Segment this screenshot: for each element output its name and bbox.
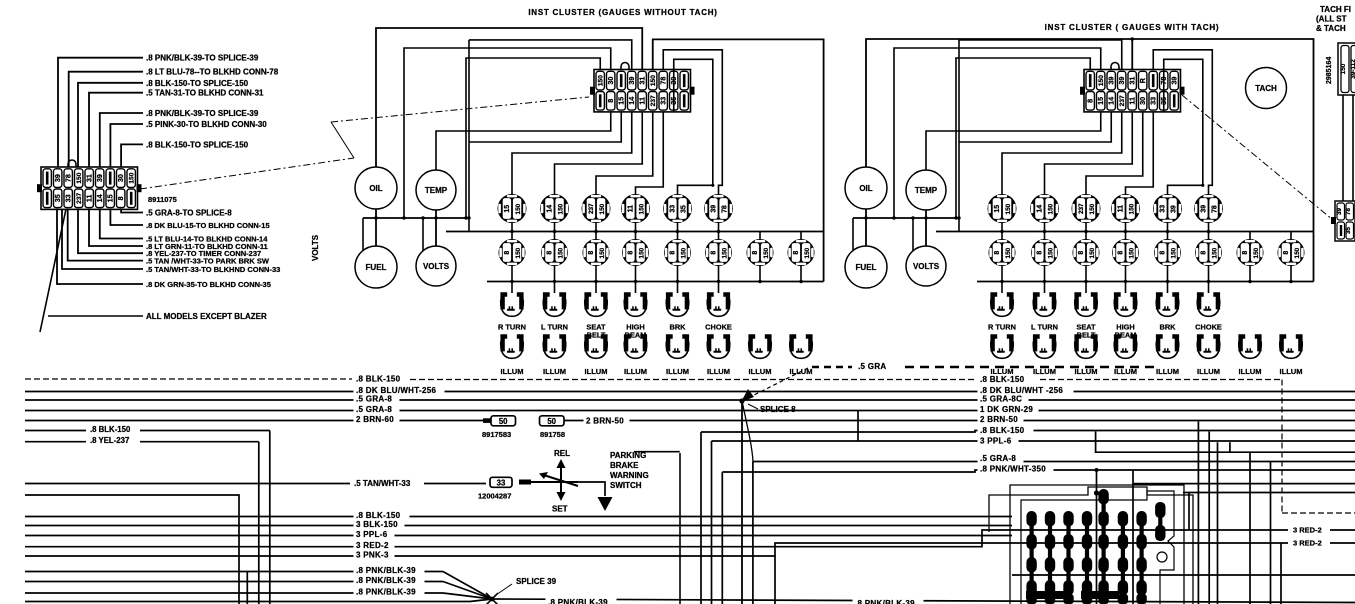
wire red-2b drop — [1280, 543, 1282, 604]
svg-text:.8 BLK-150-TO SPLICE-150: .8 BLK-150-TO SPLICE-150 — [146, 79, 249, 88]
connector C1 blkhd pin cell top3 78 — [64, 169, 72, 188]
svg-text:BRK: BRK — [669, 323, 686, 332]
svg-text:3 BLK-150: 3 BLK-150 — [356, 520, 398, 529]
wire pnk/blk diag 2 — [443, 582, 492, 600]
svg-text:15: 15 — [617, 97, 626, 105]
wire all-models lead — [48, 315, 143, 317]
wire drop x680 — [679, 453, 681, 604]
connector C1 blkhd pin cell top6 39 — [96, 169, 104, 188]
connector C1 blkhd pin cell top9 150 — [127, 169, 135, 188]
wire bulb row2 stub with tach — [1044, 232, 1046, 240]
svg-text:8: 8 — [1118, 251, 1125, 255]
svg-text:8: 8 — [670, 251, 677, 255]
label bus right — [978, 414, 1024, 425]
gauge TEMP — [906, 170, 946, 210]
wire bus at y420.5 — [25, 420, 1355, 422]
terminal blob — [483, 418, 491, 423]
wire fuel left drop without tach — [362, 218, 364, 250]
svg-text:.8 BLK-150: .8 BLK-150 — [356, 511, 401, 520]
svg-text:39: 39 — [95, 174, 104, 182]
wire y452 run — [1096, 432, 1355, 453]
bulb socket row1-3 with tach (237/150) — [1072, 194, 1101, 223]
svg-text:150: 150 — [1089, 203, 1096, 214]
svg-text:8: 8 — [1086, 99, 1095, 103]
svg-text:3 RED-2: 3 RED-2 — [1293, 526, 1322, 535]
label bus right — [978, 404, 1039, 415]
svg-text:39: 39 — [711, 205, 718, 213]
dash splice8 riser — [742, 368, 808, 401]
svg-text:L TURN: L TURN — [541, 323, 568, 332]
connector C2 cluster without-tach pin cell bot8 35 — [670, 92, 678, 111]
connector C2 cluster without-tach pin cell top2 30 — [607, 71, 615, 90]
lamp ILLUM-1 without tach — [500, 334, 523, 358]
wire C1 bottom 7 — [62, 209, 143, 270]
wire bulb row2 stub with tach — [1249, 232, 1251, 240]
connector C1 blkhd pin cell bot5 11 — [85, 189, 93, 208]
wire tan/wht left — [25, 483, 350, 485]
connector C3 cluster with-tach pin cell bot8 35 — [1160, 92, 1168, 111]
wire red-2 exit a — [1330, 529, 1355, 531]
wire C1 bottom 6 — [68, 209, 143, 261]
svg-text:150: 150 — [1170, 247, 1177, 258]
svg-text:ILLUM: ILLUM — [585, 367, 608, 376]
wire C1 top 7 — [121, 144, 143, 167]
wire step ppl — [1229, 442, 1231, 452]
connector C1 blkhd right nub — [137, 184, 142, 192]
park brake switch lever — [542, 475, 578, 487]
wire C1 top 5 — [100, 113, 143, 167]
svg-text:.8 PNK/BLK-39: .8 PNK/BLK-39 — [356, 576, 416, 585]
svg-text:237: 237 — [588, 203, 595, 214]
connector C2 cluster without-tach pin cell top6 150 — [649, 71, 657, 90]
svg-text:OIL: OIL — [369, 184, 382, 193]
svg-text:.8 BLK-150: .8 BLK-150 — [90, 425, 131, 434]
wire bulb drop without tach — [511, 223, 513, 232]
svg-text:150: 150 — [1128, 247, 1135, 258]
svg-text:.8 PNK/BLK-39: .8 PNK/BLK-39 — [548, 598, 608, 604]
switch down arrow — [598, 497, 613, 511]
label pnk/blk 2 — [354, 575, 425, 586]
svg-text:FUEL: FUEL — [856, 263, 877, 272]
svg-text:.5 PINK-30-TO BLKHD CONN-30: .5 PINK-30-TO BLKHD CONN-30 — [146, 120, 267, 129]
connector C1 blkhd pin cell top5 31 — [85, 169, 93, 188]
svg-text:8: 8 — [711, 251, 718, 255]
connector C3 cluster with-tach body — [1084, 70, 1181, 112]
connector C5 cell 39 — [1337, 203, 1345, 220]
wire bulb2 feed with tach — [1045, 112, 1133, 194]
wire right extra y483 — [1133, 483, 1355, 485]
connector C3 cluster with-tach pin cell top1 bar — [1086, 71, 1094, 90]
connector C3 cluster with-tach pin cell bot4 237 — [1118, 92, 1126, 111]
connector C2 cluster without-tach right nub — [690, 87, 695, 95]
svg-text:8: 8 — [793, 251, 800, 255]
bulb socket row2-5 without tach (8/150) — [664, 239, 691, 266]
wire bulb row2 stub with tach — [1125, 232, 1127, 240]
svg-text:.5 GRA: .5 GRA — [858, 362, 886, 371]
connector C2 cluster without-tach left nub — [590, 87, 595, 95]
wire to cell30 without tach — [404, 48, 611, 218]
svg-text:150: 150 — [515, 203, 522, 214]
svg-text:11: 11 — [85, 194, 94, 202]
wire to cell30 with tach — [894, 48, 1101, 218]
bulb socket row1-2 with tach (14/150) — [1030, 194, 1059, 223]
wire pcb cross y575 — [1012, 574, 1355, 576]
lamp L TURN without tach — [543, 292, 566, 316]
svg-text:FUEL: FUEL — [366, 263, 387, 272]
wire mid bus without tach — [446, 231, 824, 233]
wire bus y516.5 — [25, 516, 1012, 518]
svg-text:78: 78 — [721, 205, 728, 213]
wire bulb row2 stub with tach — [1167, 232, 1169, 240]
svg-text:.8 PNK/WHT-350: .8 PNK/WHT-350 — [980, 465, 1046, 474]
lamp R TURN with tach — [990, 292, 1013, 316]
wire blk-150 drop x269.8 — [269, 431, 271, 604]
svg-text:ILLUM: ILLUM — [1156, 367, 1179, 376]
svg-text:L TURN: L TURN — [1031, 323, 1058, 332]
svg-text:.8 BLK-150: .8 BLK-150 — [980, 426, 1025, 435]
label .5 GRA-8 right — [978, 453, 1024, 464]
wire lamp stub without tach — [554, 282, 556, 294]
svg-text:8: 8 — [1283, 251, 1290, 255]
svg-text:2 BRN-50: 2 BRN-50 — [586, 417, 624, 426]
connector C2 cluster without-tach pin cell top9 bar — [680, 71, 688, 90]
wire bus y535.5 — [25, 535, 1012, 537]
label 3 PNK-3 — [354, 550, 395, 561]
lamp CHOKE without tach — [707, 292, 730, 316]
bulb socket row2-3 without tach (8/150) — [583, 239, 610, 266]
wire C1 bottom 3 — [100, 209, 143, 239]
svg-text:CHOKE: CHOKE — [705, 323, 732, 332]
wire pnk/blk 2 — [25, 581, 443, 583]
connector C1 blkhd pin cell top8 30 — [117, 169, 125, 188]
connector C2 cluster without-tach pin cell bot4 14 — [628, 92, 636, 111]
svg-text:2 BRN-60: 2 BRN-60 — [356, 415, 394, 424]
connector C5 cell 35 — [1346, 222, 1354, 239]
connector C3 cluster with-tach pin cell top6 R — [1139, 71, 1147, 90]
gauge OIL — [845, 167, 887, 209]
connector C3 cluster with-tach pin cell top2 150 — [1097, 71, 1105, 90]
pcb connector outline inner — [1021, 491, 1174, 604]
svg-text:8: 8 — [588, 251, 595, 255]
wire drop x247 — [246, 572, 248, 604]
wire bus blk-150 dashed right2 — [1040, 379, 1282, 381]
svg-text:8: 8 — [1160, 251, 1167, 255]
svg-text:8911075: 8911075 — [148, 195, 177, 204]
label bus right — [978, 394, 1029, 405]
wire bus blk-150 dashed right — [410, 379, 975, 381]
wire bus yel-237 y441 — [140, 441, 259, 443]
connector C2 cluster without-tach pin cell top5 31 — [638, 71, 646, 90]
connector C4 cell 150 — [1341, 46, 1349, 93]
wire bus yel-237 y441 stub — [25, 441, 86, 443]
svg-text:TACH FI: TACH FI — [1320, 5, 1351, 14]
label bus2 — [354, 519, 405, 530]
connector C3 cluster with-tach pin cell bot1 8 — [1086, 92, 1094, 111]
wire drop x752 — [752, 462, 754, 604]
wire pnk/blk 3 — [25, 592, 443, 594]
svg-text:.8 PNK/BLK-39-TO SPLICE-39: .8 PNK/BLK-39-TO SPLICE-39 — [146, 54, 259, 63]
connector C1 blkhd pin cell top4 150 — [75, 169, 83, 188]
pcb pad column — [1045, 511, 1055, 604]
wire bulb drop without tach — [635, 223, 637, 232]
svg-text:.8 PNK/BLK-39: .8 PNK/BLK-39 — [356, 566, 416, 575]
connector C5 cell 78 — [1346, 203, 1354, 220]
svg-text:.8 PNK/BLK-39: .8 PNK/BLK-39 — [855, 599, 915, 604]
connector C3 cluster with-tach pin cell bot5 11 — [1128, 92, 1136, 111]
wire bulb row2 stub without tach — [635, 232, 637, 240]
wire right edge without-tach — [653, 39, 824, 281]
connector C2 cluster without-tach pin cell bot6 237 — [649, 92, 657, 111]
wire bulb drop without tach — [554, 223, 556, 232]
bulb socket row1-1 with tach (15/150) — [988, 194, 1017, 223]
wire bulb drop without tach — [677, 223, 679, 232]
wire bulb row2 stub without tach — [800, 232, 802, 240]
wire fuel left drop with tach — [852, 218, 854, 250]
wire drop x1217 — [1217, 442, 1219, 604]
svg-text:SWITCH: SWITCH — [610, 481, 642, 490]
svg-text:237: 237 — [1119, 95, 1126, 106]
wire drop x1133 — [1132, 470, 1134, 604]
wire drop x701 — [700, 432, 702, 604]
connector C3 cluster with-tach pin cell top7 bar — [1149, 71, 1157, 90]
wire bulb3 feed with tach — [1086, 112, 1143, 194]
svg-text:35: 35 — [53, 194, 62, 202]
wire bulb row2 stub with tach — [1208, 232, 1210, 240]
wire bus blk-150 y430 — [140, 430, 270, 432]
connector C5 nub — [1331, 217, 1336, 224]
connector C2 cluster without-tach pin cell top1 150 — [596, 71, 604, 90]
svg-text:39: 39 — [1201, 205, 1208, 213]
connector C2 cluster without-tach keying bump — [621, 63, 629, 70]
wire drop x1094 — [1096, 470, 1098, 604]
lamp ILLUM-4 with tach — [1114, 334, 1137, 358]
wire 3 pnk-3 — [25, 543, 1288, 556]
lamp SEAT|BELT without tach — [584, 292, 607, 316]
wire yel-237 drop x258.8 — [258, 442, 260, 604]
svg-text:.5 TAN-31-TO BLKHD CONN-31: .5 TAN-31-TO BLKHD CONN-31 — [146, 89, 264, 98]
label 2 BRN-50 mid — [584, 416, 630, 427]
svg-text:150: 150 — [680, 247, 687, 258]
wire temp-volts link with tach — [925, 210, 927, 246]
gauge VOLTS — [416, 246, 456, 286]
gauge VOLTS — [906, 246, 946, 286]
svg-text:ILLUM: ILLUM — [1280, 367, 1303, 376]
svg-text:12004287: 12004287 — [478, 492, 511, 501]
svg-text:8: 8 — [1242, 251, 1249, 255]
svg-text:150: 150 — [1128, 203, 1135, 214]
svg-text:.8 BLK-150: .8 BLK-150 — [980, 375, 1025, 384]
wire bulb row2 stub without tach — [718, 232, 720, 240]
gauge FUEL — [355, 246, 397, 288]
wire volts left drop without tach — [422, 218, 424, 251]
svg-text:WARNING: WARNING — [610, 471, 649, 480]
connector C1 blkhd pin cell bot4 237 — [75, 189, 83, 208]
svg-text:150: 150 — [638, 203, 645, 214]
label bus2 — [354, 510, 410, 521]
wire pnk/blk out — [492, 599, 1355, 603]
bulb socket row2-7 without tach (8/150) — [747, 239, 774, 266]
svg-text:BELT: BELT — [587, 331, 606, 340]
svg-text:8: 8 — [752, 251, 759, 255]
wire C1 bottom 4 — [89, 209, 143, 247]
wire to cell150a with tach — [956, 58, 1090, 218]
park brake switch cross — [531, 481, 578, 483]
svg-text:11: 11 — [628, 205, 635, 213]
wire C1 bottom 5 — [78, 209, 143, 254]
lamp L TURN with tach — [1033, 292, 1056, 316]
pcb pad column — [1063, 511, 1073, 604]
lamp BRK with tach — [1156, 292, 1179, 316]
connector C3 cluster with-tach pin cell top9 39 — [1170, 71, 1178, 90]
connector C1 blkhd keying bump — [68, 160, 76, 167]
wire bulb drop with tach — [1044, 223, 1046, 232]
svg-text:237: 237 — [76, 192, 83, 203]
svg-text:150: 150 — [1340, 63, 1347, 74]
wire C4 to C5 right — [1352, 95, 1354, 201]
pcb pad column — [1082, 511, 1092, 604]
lamp SEAT|BELT with tach — [1074, 292, 1097, 316]
wire bulb drop without tach — [718, 223, 720, 232]
connector C3 cluster with-tach pin cell top3 39 — [1107, 71, 1115, 90]
svg-text:30: 30 — [606, 77, 615, 85]
svg-text:150: 150 — [1089, 247, 1096, 258]
wire red-2 exit b — [1330, 542, 1355, 544]
label bus2 — [354, 529, 395, 540]
wire fuel riser with tach — [958, 40, 960, 232]
wire C1 top 4 — [89, 93, 143, 167]
connector C5 body — [1335, 201, 1355, 241]
pcb pad column 8 — [1155, 502, 1165, 541]
junction x1102 — [1094, 490, 1099, 495]
gauge OIL — [355, 167, 397, 209]
lamp ILLUM-7 without tach — [748, 334, 771, 358]
svg-text:8: 8 — [1037, 251, 1044, 255]
wire gauge bus with tach — [853, 217, 960, 219]
lamp ILLUM-5 without tach — [666, 334, 689, 358]
wire C1 top 2 — [69, 72, 143, 167]
wire lamp stub with tach — [1208, 282, 1210, 294]
wire pnk/blk diag 3 — [443, 593, 492, 599]
bulb socket row1-2 without tach (14/150) — [540, 194, 569, 223]
wire pnk/wht y472 — [722, 470, 1355, 472]
wire fuel riser without tach — [468, 40, 470, 232]
svg-text:.8 DK BLU-15-TO BLKHD CONN-15: .8 DK BLU-15-TO BLKHD CONN-15 — [146, 221, 270, 230]
svg-text:.8 YEL-237: .8 YEL-237 — [90, 436, 129, 445]
splice8 pointer — [748, 404, 758, 409]
wire bus blk-150 dashed drop — [1281, 380, 1283, 514]
svg-text:14: 14 — [1107, 97, 1116, 105]
svg-text:BEAM: BEAM — [1115, 331, 1137, 340]
wire lamp stub without tach — [635, 282, 637, 294]
gauge FUEL — [845, 246, 887, 288]
svg-text:3 RED-2: 3 RED-2 — [356, 541, 389, 550]
wire to cell150a without tach — [466, 58, 600, 218]
wire bulb row2 stub with tach — [1001, 232, 1003, 240]
svg-text:150: 150 — [1005, 203, 1012, 214]
wire oil-fuel link with tach — [865, 209, 867, 246]
svg-text:15: 15 — [994, 205, 1001, 213]
svg-text:.8 BLK-150-TO SPLICE-150: .8 BLK-150-TO SPLICE-150 — [146, 140, 249, 149]
lamp ILLUM-2 without tach — [543, 334, 566, 358]
bulb socket row2-8 without tach (8/150) — [788, 239, 815, 266]
label 3 RED-2 — [354, 540, 395, 551]
svg-text:R TURN: R TURN — [988, 323, 1016, 332]
svg-text:1 DK GRN-29: 1 DK GRN-29 — [980, 405, 1033, 414]
connector C1 blkhd pin cell bot7 15 — [106, 189, 114, 208]
connector C1 blkhd pin cell top1 bar — [43, 169, 51, 188]
connector C1 blkhd left nub — [37, 184, 42, 192]
label bus left — [354, 414, 400, 425]
wire bus blk-150 y430 stub — [25, 430, 86, 432]
label bus left — [354, 404, 400, 415]
bulb socket row2-8 with tach (8/150) — [1278, 239, 1305, 266]
lamp HIGH|BEAM without tach — [624, 292, 647, 316]
connector C3 cluster with-tach left nub — [1080, 87, 1085, 95]
svg-text:2 BRN-50: 2 BRN-50 — [980, 415, 1018, 424]
wire bus right blk-150 y430 — [701, 431, 1355, 433]
bulb socket row1-4 without tach (11/150) — [621, 194, 650, 223]
bulb socket row1-3 without tach (237/150) — [582, 194, 611, 223]
svg-text:39: 39 — [1170, 205, 1177, 213]
lamp R TURN without tach — [500, 292, 523, 316]
svg-text:3 PNK-3: 3 PNK-3 — [356, 551, 389, 560]
wire bulb row2 stub with tach — [1290, 232, 1292, 240]
svg-text:ILLUM: ILLUM — [666, 367, 689, 376]
wire bulb drop with tach — [1001, 223, 1003, 232]
bulb socket row1-6 without tach (39/78) — [704, 194, 733, 223]
label bus blk-150 left — [354, 374, 410, 385]
svg-text:8: 8 — [1201, 251, 1208, 255]
svg-text:8: 8 — [116, 196, 125, 200]
bulb socket row2-4 with tach (8/150) — [1112, 239, 1139, 266]
wire drop x1270 — [1270, 462, 1272, 604]
wire bulb4 feed without tach — [636, 112, 664, 194]
wire bulb4 feed with tach — [1126, 112, 1154, 194]
connector C1 blkhd pin cell bot3 33 — [64, 189, 72, 208]
svg-text:15: 15 — [1096, 97, 1105, 105]
wire bulb5 feed without tach — [674, 59, 713, 194]
wire bulb row2 stub without tach — [759, 232, 761, 240]
svg-text:ILLUM: ILLUM — [749, 367, 772, 376]
splice 39 pointer — [496, 584, 512, 595]
svg-text:39: 39 — [1336, 208, 1343, 215]
label pnk/blk 1 — [354, 565, 425, 576]
bulb socket row2-6 without tach (8/150) — [705, 239, 732, 266]
splice 39 node — [486, 593, 498, 604]
svg-text:30: 30 — [116, 174, 125, 182]
connector C2 cluster without-tach pin cell bot7 33 — [659, 92, 667, 111]
wire drop x1250 — [1249, 453, 1251, 604]
wire bulb drop with tach — [1167, 223, 1169, 232]
svg-text:150: 150 — [1253, 247, 1260, 258]
wire mid bus with tach — [936, 231, 1314, 233]
bulb socket row2-5 with tach (8/150) — [1154, 239, 1181, 266]
svg-text:BRK: BRK — [1159, 323, 1176, 332]
svg-text:150: 150 — [1047, 203, 1054, 214]
svg-text:.5 GRA-8: .5 GRA-8 — [980, 454, 1016, 463]
svg-text:R: R — [1138, 77, 1147, 83]
connector C1 blkhd pin cell bot2 35 — [54, 189, 62, 208]
svg-text:.8 DK GRN-35-TO BLKHD CONN-35: .8 DK GRN-35-TO BLKHD CONN-35 — [146, 280, 271, 289]
wire bulb3 feed without tach — [596, 112, 653, 194]
svg-text:3 PPL-6: 3 PPL-6 — [980, 437, 1012, 446]
wire pnk/blk diag 1 — [443, 572, 492, 600]
wire all-models diagonal — [40, 209, 66, 332]
wire bottom bus without tach — [487, 281, 824, 283]
lamp ILLUM-4 without tach — [624, 334, 647, 358]
connector C2 cluster without-tach pin cell bot5 11 — [638, 92, 646, 111]
dash-dot link C3 to C5 — [1182, 95, 1333, 220]
